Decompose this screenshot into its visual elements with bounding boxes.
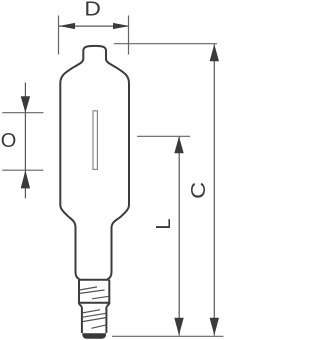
svg-text:O: O [1,130,17,152]
svg-text:D: D [84,0,101,21]
svg-text:L: L [153,218,175,229]
svg-text:C: C [188,182,210,199]
